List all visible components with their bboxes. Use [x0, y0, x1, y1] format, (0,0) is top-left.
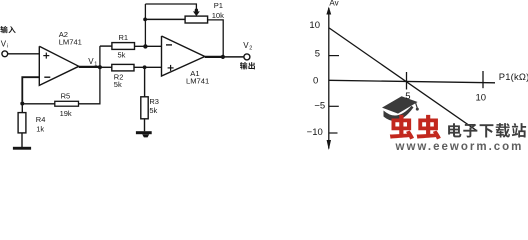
svg-text:10: 10	[309, 20, 320, 31]
ground (R3)	[136, 131, 152, 134]
input label 输入	[0, 26, 7, 33]
svg-text:10: 10	[476, 93, 487, 104]
wire input to A2 +	[8, 53, 40, 55]
svg-text:www.eeworm.com: www.eeworm.com	[395, 141, 524, 152]
svg-text:−10: −10	[307, 127, 323, 138]
svg-text:2: 2	[249, 45, 252, 51]
op-amp A1	[162, 36, 205, 76]
tick y +5	[329, 55, 339, 57]
ground (R4)	[13, 147, 31, 150]
node output junction	[221, 55, 225, 59]
svg-text:5k: 5k	[149, 106, 157, 115]
feedback wire up from A1 - node	[144, 4, 146, 46]
wire R1 to A1 -	[135, 45, 162, 47]
op-amp A2	[39, 46, 79, 85]
svg-text:R1: R1	[119, 33, 129, 42]
wire A2 output	[79, 66, 100, 68]
wire V1 to R1	[100, 45, 112, 47]
watermark 电子下载站	[448, 123, 461, 137]
svg-text:0: 0	[313, 76, 318, 87]
output terminal	[244, 54, 250, 60]
wire R4 to ground	[21, 133, 23, 147]
svg-text:P1: P1	[214, 1, 223, 10]
wiper arrow	[193, 11, 200, 16]
svg-text:−5: −5	[314, 101, 325, 112]
gain line	[329, 28, 476, 131]
resistor R2	[112, 64, 134, 71]
watermark 虫 2	[417, 115, 441, 140]
svg-text:LM741: LM741	[186, 77, 209, 86]
node R3 junction	[143, 65, 147, 69]
graph y-axis	[328, 8, 330, 149]
node A1 inverting input	[143, 44, 147, 48]
svg-text:19k: 19k	[60, 109, 72, 118]
watermark cap brim	[384, 106, 414, 121]
wire top feedback	[145, 4, 196, 11]
resistor R5	[55, 101, 79, 106]
wiper dot	[195, 9, 198, 12]
wire A1 output	[205, 56, 223, 58]
svg-text:R5: R5	[61, 92, 71, 101]
svg-text:R4: R4	[36, 115, 46, 124]
node R4/R5 junction	[20, 102, 24, 106]
potentiometer P1	[185, 16, 208, 23]
output label 输出	[240, 62, 247, 69]
svg-text:5: 5	[405, 91, 410, 102]
svg-text:1: 1	[94, 61, 97, 67]
resistor R4	[18, 113, 26, 133]
graph x-axis	[329, 80, 495, 83]
watermark cap board	[382, 96, 418, 113]
wire pot right down to output	[208, 20, 224, 57]
wire to output terminal	[223, 56, 244, 58]
wire junction to R5	[22, 103, 55, 105]
svg-text:R3: R3	[149, 97, 159, 106]
svg-text:5k: 5k	[118, 50, 126, 59]
resistor R1	[112, 43, 135, 50]
wire junction to R3	[144, 67, 146, 97]
svg-text:P1(kΩ): P1(kΩ)	[499, 71, 528, 82]
svg-text:1k: 1k	[36, 125, 44, 134]
svg-text:Av: Av	[329, 0, 338, 7]
wire junction to R4	[21, 104, 23, 113]
wire V1 up to R1	[99, 46, 101, 67]
tick y -10	[329, 132, 338, 134]
wire A2 - input feedback	[22, 77, 39, 101]
wire R2 to A1 +	[134, 66, 162, 68]
wire R5 to V1 node	[79, 67, 100, 104]
wire V1 to R2	[100, 66, 112, 68]
svg-text:10k: 10k	[212, 11, 224, 20]
tick x 10	[482, 71, 484, 88]
svg-text:5: 5	[315, 49, 320, 60]
resistor R3	[141, 97, 148, 119]
watermark cap tassel	[416, 103, 418, 109]
svg-text:i: i	[7, 44, 8, 50]
svg-text:5k: 5k	[114, 80, 122, 89]
input terminal	[2, 51, 8, 57]
node pot branch	[143, 18, 147, 22]
tick x 5	[406, 72, 408, 90]
wire branch to pot left	[145, 18, 185, 20]
watermark 虫 1	[390, 115, 414, 140]
svg-text:LM741: LM741	[59, 37, 82, 46]
tick y -5	[329, 105, 339, 107]
node V1	[98, 65, 102, 69]
wire R3 to ground	[144, 119, 146, 132]
